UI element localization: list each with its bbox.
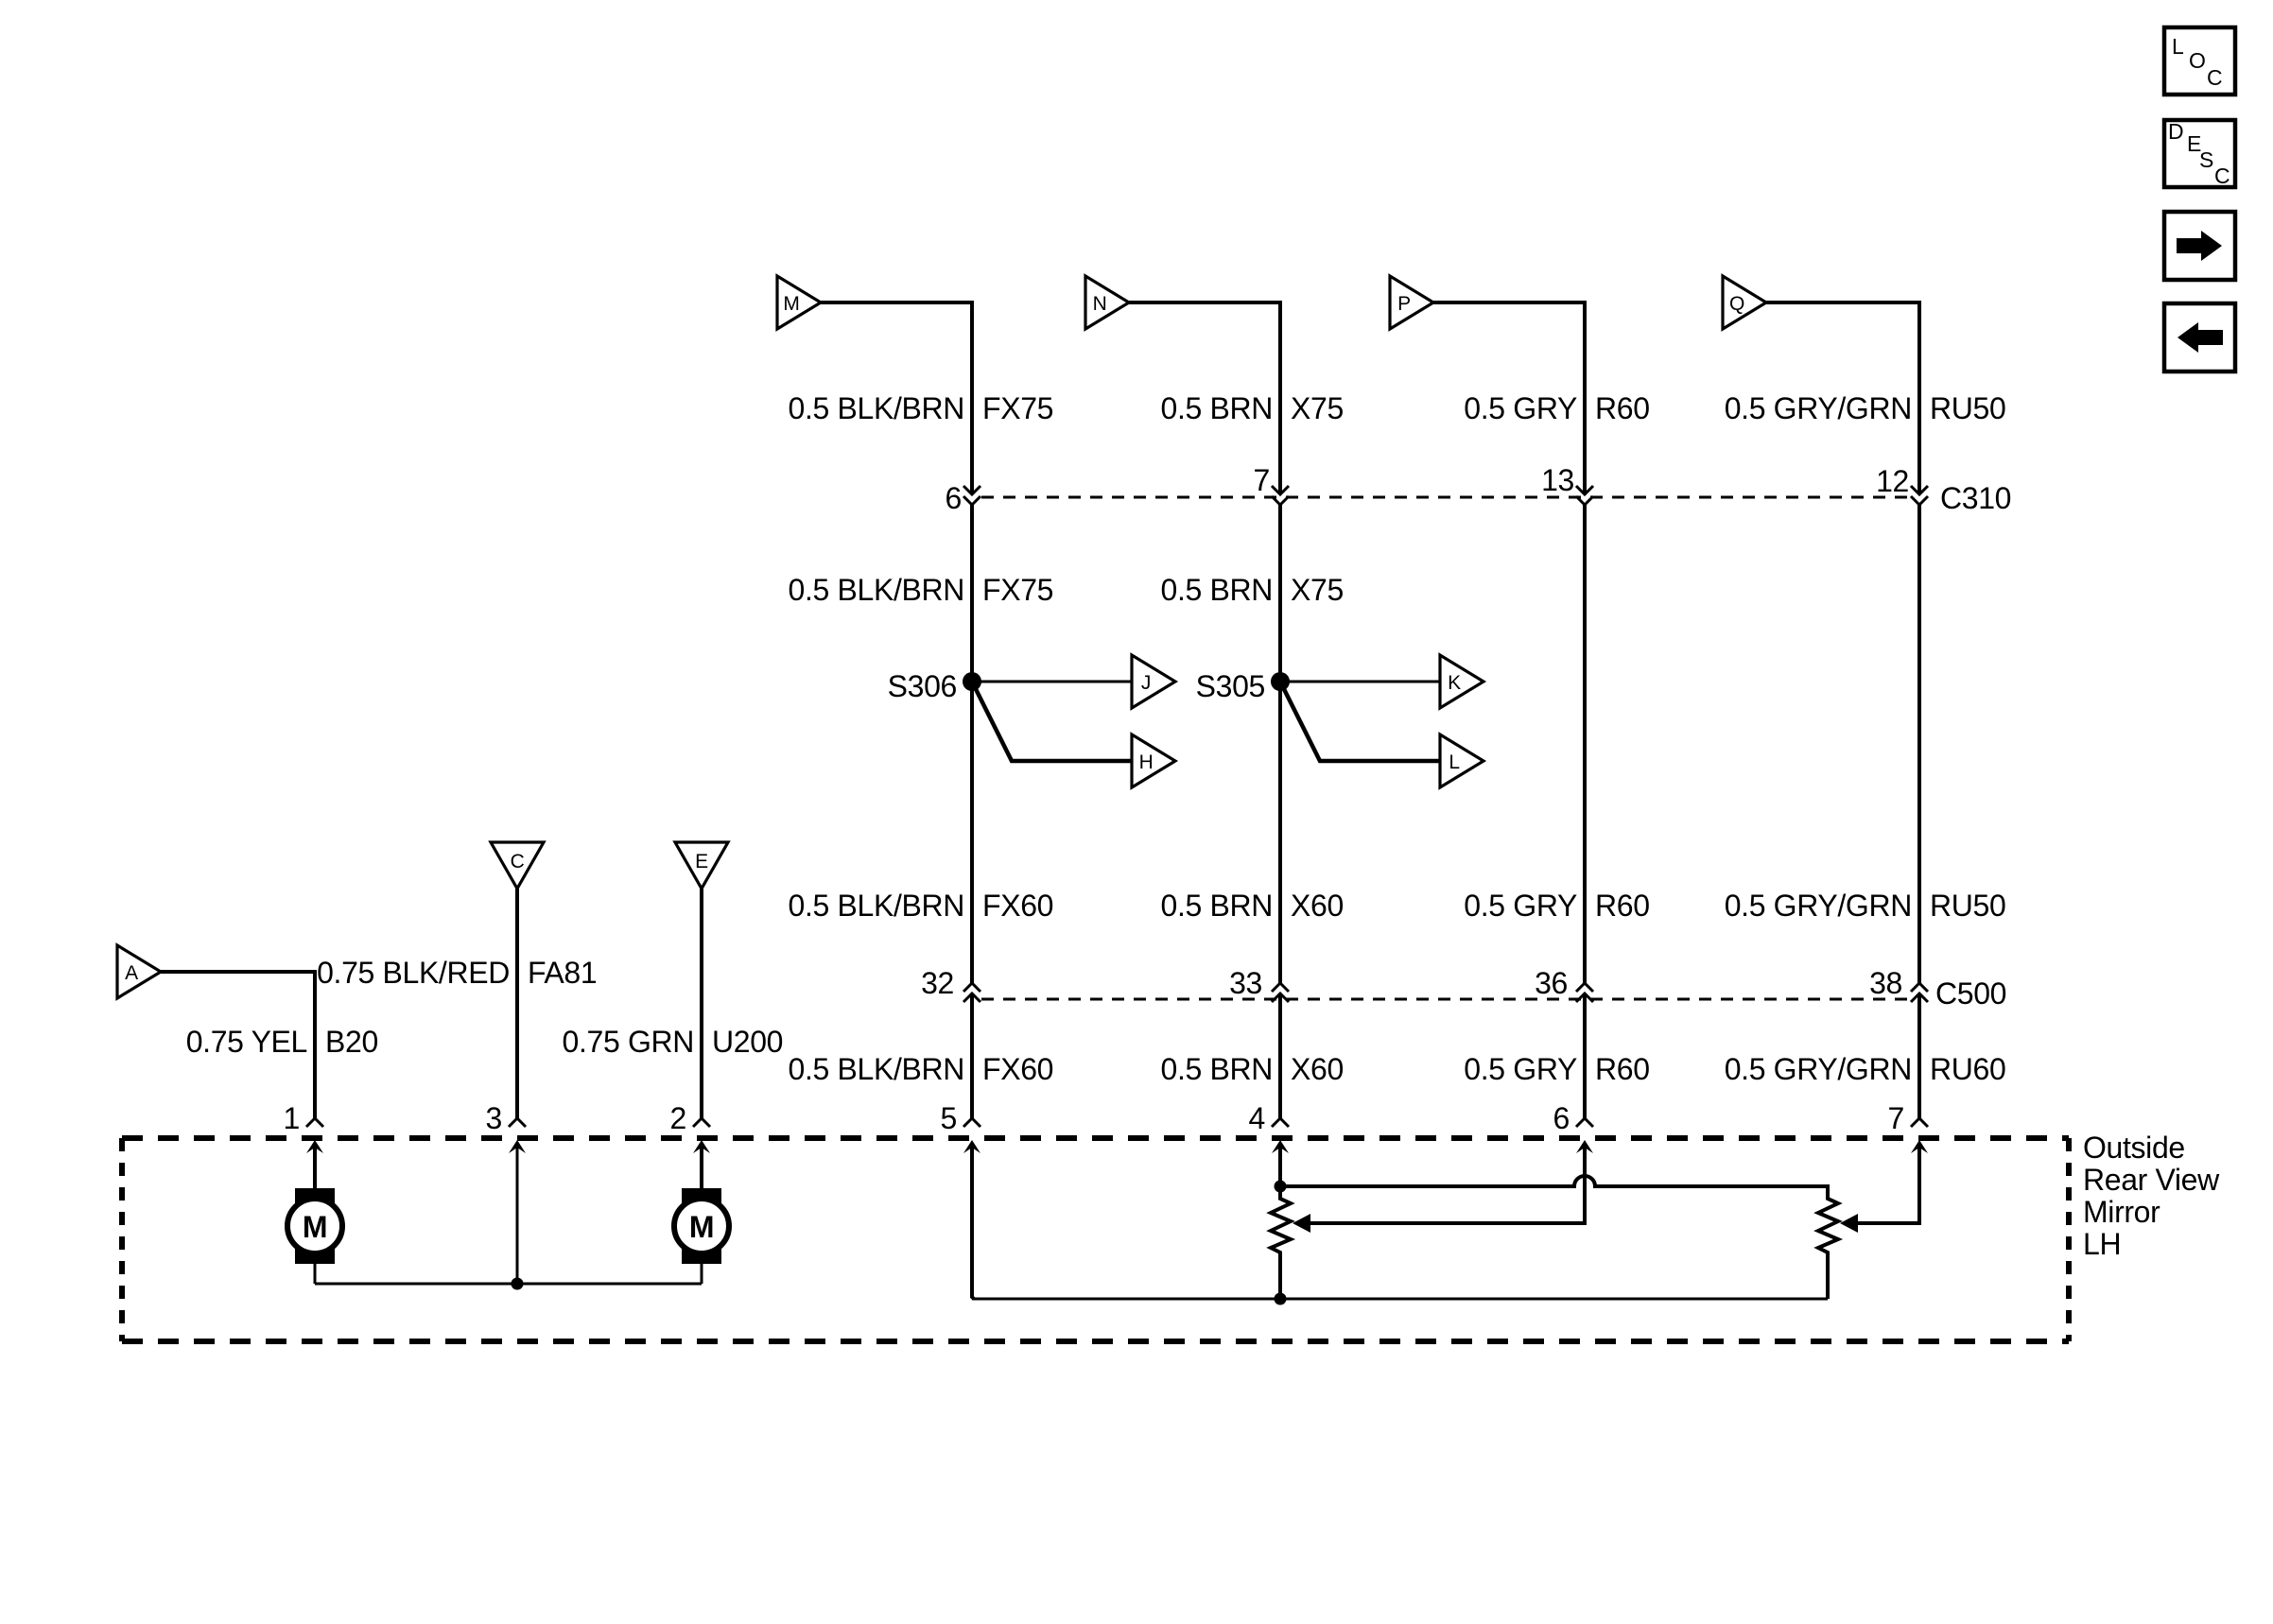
pin 7 at C310	[1254, 463, 1289, 505]
svg-text:D: D	[2168, 119, 2183, 144]
wire label 0.5 GRY R60 (above C500)	[1464, 889, 1649, 923]
wire 1 vertical	[313, 970, 317, 1118]
svg-text:S: S	[2199, 147, 2213, 172]
svg-text:0.5 BRN: 0.5 BRN	[1161, 391, 1274, 425]
svg-text:Mirror: Mirror	[2083, 1195, 2160, 1229]
svg-text:0.5 BRN: 0.5 BRN	[1161, 1052, 1274, 1086]
pin 3 at mirror box	[486, 1101, 526, 1153]
svg-text:32: 32	[921, 966, 954, 1000]
pin 7 at mirror box	[1888, 1101, 1928, 1153]
svg-text:RU50: RU50	[1930, 889, 2005, 923]
wire 4 inside box	[1278, 1144, 1282, 1186]
svg-text:7: 7	[1254, 463, 1270, 497]
svg-text:4: 4	[1249, 1101, 1265, 1135]
wiper arrow into R2	[1840, 1214, 1858, 1233]
svg-text:0.5 BRN: 0.5 BRN	[1161, 573, 1274, 607]
motor M2	[674, 1188, 729, 1264]
svg-text:LH: LH	[2083, 1227, 2121, 1261]
svg-text:B20: B20	[325, 1025, 378, 1059]
wire label 0.5 BRN X75 (upper)	[1161, 391, 1344, 425]
component name text	[2083, 1131, 2220, 1261]
svg-text:36: 36	[1535, 966, 1568, 1000]
svg-text:C: C	[511, 851, 525, 872]
wire M vertical middle	[970, 505, 974, 983]
svg-text:5: 5	[941, 1101, 957, 1135]
wire N vertical lower	[1278, 993, 1282, 1118]
svg-text:X75: X75	[1291, 391, 1344, 425]
pin 36 at C500	[1535, 966, 1593, 1002]
pin 6 at mirror box	[1553, 1101, 1593, 1153]
svg-text:FX75: FX75	[982, 391, 1053, 425]
connector triangle A	[117, 945, 161, 998]
pin 1 at mirror box	[284, 1101, 323, 1153]
connector triangle H	[1132, 734, 1175, 787]
wire label 0.75 BLK/RED FA81	[317, 956, 597, 990]
svg-text:E: E	[695, 851, 708, 872]
svg-text:M: M	[783, 293, 799, 315]
svg-text:P: P	[1397, 293, 1411, 315]
svg-text:0.5 GRY/GRN: 0.5 GRY/GRN	[1725, 889, 1912, 923]
wire stem from M	[821, 301, 974, 304]
wire from motor 2 bottom	[701, 1262, 703, 1284]
svg-text:6: 6	[946, 481, 962, 515]
wire Q vertical upper	[1917, 301, 1921, 492]
wire label 0.5 BLK/BRN FX75 (below C310)	[789, 573, 1054, 607]
wire into motor 1	[313, 1144, 317, 1189]
svg-text:C: C	[2207, 65, 2222, 90]
wire from A	[161, 970, 317, 974]
svg-text:0.5 GRY/GRN: 0.5 GRY/GRN	[1725, 1052, 1912, 1086]
svg-text:RU50: RU50	[1930, 391, 2005, 425]
svg-text:0.5 BRN: 0.5 BRN	[1161, 889, 1274, 923]
pin 13 at C310	[1541, 463, 1593, 505]
resistor R2 (pot element)	[1818, 1188, 1838, 1299]
wire 2 vertical	[700, 887, 703, 1118]
svg-text:0.75 GRN: 0.75 GRN	[563, 1025, 694, 1059]
wire label 0.5 BLK/BRN FX60 (above C500)	[789, 889, 1054, 923]
wire Q vertical lower	[1917, 993, 1921, 1118]
wire label 0.5 BRN X60 (below C500)	[1161, 1052, 1344, 1086]
svg-text:M: M	[303, 1210, 327, 1244]
svg-text:L: L	[1449, 752, 1459, 773]
wire P vertical middle	[1583, 505, 1587, 983]
wire into motor 2	[700, 1144, 703, 1189]
wiper arrow into R1	[1293, 1214, 1310, 1233]
svg-text:N: N	[1093, 293, 1107, 315]
svg-text:2: 2	[670, 1101, 686, 1135]
wire motor bottom rail	[315, 1283, 702, 1286]
svg-text:U200: U200	[712, 1025, 783, 1059]
svg-text:12: 12	[1876, 464, 1909, 498]
wire label 0.75 GRN U200	[563, 1025, 784, 1059]
component box Outside Rear View Mirror LH (dashed border)	[122, 1138, 2069, 1341]
junction dot on motor rail	[512, 1278, 524, 1290]
svg-text:C500: C500	[1935, 976, 2006, 1011]
connector C500 dashed line	[981, 998, 1911, 1001]
svg-text:L: L	[2172, 34, 2184, 59]
svg-text:O: O	[2189, 48, 2206, 73]
wire to connector K	[1280, 681, 1440, 683]
pin 6 at C310	[946, 481, 980, 515]
connector triangle P	[1390, 276, 1433, 329]
svg-text:S306: S306	[888, 669, 957, 703]
wire from motor 1 bottom	[314, 1262, 317, 1284]
junction dot resistor R1 top	[1275, 1181, 1287, 1193]
pin 32 at C500	[921, 966, 980, 1002]
wire 3 vertical	[515, 887, 519, 1118]
svg-text:0.75 BLK/RED: 0.75 BLK/RED	[317, 956, 510, 990]
svg-text:0.75 YEL: 0.75 YEL	[186, 1025, 307, 1059]
connector triangle C	[491, 842, 544, 889]
wire label 0.75 YEL B20	[186, 1025, 378, 1059]
svg-text:0.5 BLK/BRN: 0.5 BLK/BRN	[789, 573, 964, 607]
wire label 0.5 GRY/GRN RU60 (below C500)	[1725, 1052, 2006, 1086]
wire Q vertical middle	[1917, 505, 1921, 983]
wire label 0.5 GRY R60 (upper)	[1464, 391, 1649, 425]
svg-text:0.5 GRY: 0.5 GRY	[1464, 391, 1577, 425]
connector triangle N	[1085, 276, 1129, 329]
wire stem from Q	[1766, 301, 1921, 304]
svg-text:FX60: FX60	[982, 889, 1053, 923]
icon button DESC	[2164, 119, 2235, 188]
connector triangle Q	[1723, 276, 1766, 329]
connector triangle J	[1132, 655, 1175, 708]
svg-text:7: 7	[1888, 1101, 1904, 1135]
pin 4 at mirror box	[1249, 1101, 1289, 1153]
wire N vertical upper	[1278, 301, 1282, 492]
connector triangle E	[675, 842, 728, 889]
svg-text:A: A	[125, 962, 138, 984]
wire label 0.5 GRY/GRN RU50 (above C500)	[1725, 889, 2006, 923]
svg-text:1: 1	[284, 1101, 300, 1135]
wire P vertical upper	[1583, 301, 1587, 492]
svg-text:J: J	[1141, 672, 1151, 694]
svg-text:R60: R60	[1595, 391, 1650, 425]
svg-text:0.5 GRY/GRN: 0.5 GRY/GRN	[1725, 391, 1912, 425]
svg-text:H: H	[1139, 752, 1154, 773]
svg-text:0.5 GRY: 0.5 GRY	[1464, 1052, 1577, 1086]
svg-text:Outside: Outside	[2083, 1131, 2185, 1165]
motor M1	[287, 1188, 342, 1264]
wire label 0.5 BLK/BRN FX60 (below C500)	[789, 1052, 1054, 1086]
svg-text:6: 6	[1553, 1101, 1570, 1135]
wire N vertical middle	[1278, 505, 1282, 983]
wire label 0.5 BRN X60 (above C500)	[1161, 889, 1344, 923]
svg-text:38: 38	[1869, 966, 1902, 1000]
resistor R1 (pot element, pin 4)	[1271, 1188, 1291, 1299]
junction dot resistor R1 bottom	[1275, 1293, 1287, 1305]
wire 7 wiper into R2	[1857, 1144, 1919, 1223]
wire stem from P	[1433, 301, 1587, 304]
pin 12 at C310	[1876, 464, 1928, 505]
wire 5 inside box	[972, 1144, 974, 1299]
icon button arrow right	[2164, 212, 2235, 280]
wire bottom rail of potentiometers	[972, 1298, 1828, 1301]
svg-text:33: 33	[1229, 966, 1262, 1000]
svg-text:X60: X60	[1291, 889, 1344, 923]
svg-text:0.5 BLK/BRN: 0.5 BLK/BRN	[789, 391, 964, 425]
pin 2 at mirror box	[670, 1101, 710, 1153]
splice S306	[888, 669, 981, 703]
svg-text:R60: R60	[1595, 1052, 1650, 1086]
icon button LOC	[2164, 27, 2235, 95]
wire M vertical upper	[970, 301, 974, 492]
pin 38 at C500	[1869, 966, 1928, 1002]
pin 33 at C500	[1229, 966, 1289, 1002]
wire P vertical lower	[1583, 993, 1587, 1118]
svg-text:3: 3	[486, 1101, 502, 1135]
svg-text:M: M	[689, 1210, 714, 1244]
svg-text:RU60: RU60	[1930, 1052, 2005, 1086]
connector triangle L	[1440, 734, 1484, 787]
svg-text:0.5 GRY: 0.5 GRY	[1464, 889, 1577, 923]
svg-text:C310: C310	[1940, 481, 2011, 515]
wire label 0.5 BRN X75 (below C310)	[1161, 573, 1344, 607]
wire M vertical lower	[970, 993, 974, 1118]
wire to connector J	[972, 681, 1132, 683]
svg-text:Rear View: Rear View	[2083, 1163, 2220, 1197]
wire from R1 top to R2 top (hop over wire 6)	[1280, 1176, 1828, 1197]
connector C310 dashed line	[981, 496, 1911, 499]
svg-text:C: C	[2214, 164, 2230, 188]
connector triangle K	[1440, 655, 1484, 708]
wire label 0.5 GRY/GRN RU50 (upper)	[1725, 391, 2006, 425]
connector triangle M	[777, 276, 821, 329]
svg-text:13: 13	[1541, 463, 1574, 497]
svg-text:FX75: FX75	[982, 573, 1053, 607]
wire to connector L	[1280, 682, 1440, 761]
svg-text:S305: S305	[1196, 669, 1265, 703]
svg-text:0.5 BLK/BRN: 0.5 BLK/BRN	[789, 1052, 964, 1086]
wire to connector H	[972, 682, 1132, 761]
wire label 0.5 GRY R60 (below C500)	[1464, 1052, 1649, 1086]
svg-text:K: K	[1448, 672, 1461, 694]
wire 3 inside box	[516, 1144, 519, 1284]
icon button arrow left	[2164, 303, 2235, 371]
wire stem from N	[1129, 301, 1282, 304]
wire 6 wiper into R1	[1310, 1144, 1585, 1223]
svg-text:Q: Q	[1729, 293, 1744, 315]
svg-text:X60: X60	[1291, 1052, 1344, 1086]
svg-text:X75: X75	[1291, 573, 1344, 607]
svg-text:R60: R60	[1595, 889, 1650, 923]
svg-text:0.5 BLK/BRN: 0.5 BLK/BRN	[789, 889, 964, 923]
svg-text:FA81: FA81	[528, 956, 597, 990]
pin 5 at mirror box	[941, 1101, 980, 1153]
svg-text:FX60: FX60	[982, 1052, 1053, 1086]
splice S305	[1196, 669, 1290, 703]
wire label 0.5 BLK/BRN FX75 (upper)	[789, 391, 1054, 425]
